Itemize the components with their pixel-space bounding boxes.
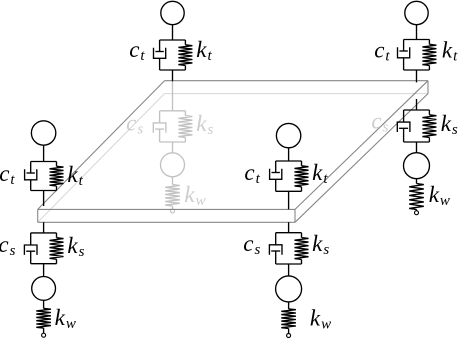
svg-text:kw: kw [310,306,331,333]
wire top bar (front-right suspension pair) [276,232,302,234]
svg-text:ks: ks [441,111,458,138]
wire to wheel mass (front-left) [43,264,45,277]
chassis plate front bottom edge [38,221,295,223]
chassis plate right face (fill) [295,81,428,223]
spring k (front-left tire pair) [50,162,64,191]
sprung mass (rear-right) [405,1,428,24]
wire pair to plate (front-right) [288,191,290,209]
wire pair to plate (rear-right) [416,70,418,82]
wire top bar (hidden rear-left suspension) [160,110,186,112]
ground node (front-right) [287,334,291,338]
svg-text:ct: ct [374,38,390,65]
spring k (front-right tire pair) [295,161,309,191]
wheel mass (front-right) [276,276,302,302]
hidden wire to ground (rear-left) [172,206,174,209]
svg-text:cs: cs [243,231,260,258]
hidden plate bottom-back edge [165,93,429,95]
wire plate to suspension (rear-right) [416,99,418,110]
damper c (rear-right tire pair) [398,40,410,71]
hidden wire to wheel mass (rear-left) [172,142,174,153]
wire bottom bar (front-right suspension pair) [276,263,302,265]
damper c (hidden rear-left suspension) [153,111,166,142]
wire top bar (rear-left tire pair) [160,39,186,41]
svg-text:ks: ks [67,233,84,260]
chassis plate right end cap [427,81,429,94]
chassis plate left edge [38,81,165,210]
wire plate to pair (front-left) [43,222,45,233]
svg-text:cs: cs [0,232,16,259]
hidden wire to tire spring (rear-left) [172,177,174,185]
damper c (rear-right suspension pair) [397,110,410,142]
wire bottom bar (rear-right suspension pair) [404,141,430,143]
spring k (front-left suspension pair) [50,233,64,264]
svg-text:kt: kt [196,37,212,64]
damper c (rear-left tire pair) [154,40,166,70]
hidden plate bottom-left edge [38,94,165,223]
damper c (front-right tire pair) [270,161,282,191]
wire bottom bar (rear-left tire pair) [160,69,186,71]
hidden wheel mass (rear-left) [161,153,185,177]
wire bottom bar (front-left suspension pair) [31,263,57,265]
wire pair to plate (front-left) [43,191,45,207]
chassis plate front right end cap [294,209,296,222]
wire top bar (rear-right suspension pair) [404,109,430,111]
sprung mass (front-right) [276,123,300,147]
chassis plate top face (fill) [38,81,428,210]
svg-text:ct: ct [129,37,145,64]
chassis plate front face (fill) [38,209,295,222]
svg-text:ks: ks [312,231,329,258]
damper c (front-right suspension pair) [269,233,282,264]
spring k (rear-left tire pair) [178,40,192,70]
wire bottom bar (front-left tire pair) [31,190,57,192]
spring k (rear-right tire pair) [422,40,436,71]
wire top bar (front-left suspension pair) [31,232,57,234]
wire bottom bar (rear-right tire pair) [404,69,430,71]
chassis plate lower right edge [295,94,428,223]
chassis plate front top edge [38,208,295,210]
svg-text:kw: kw [55,305,76,332]
spring k (rear-right suspension pair) [422,110,436,142]
wire to wheel mass (rear-right) [416,142,418,153]
damper c (front-left tire pair) [25,162,37,191]
wire mass to pair (front-right) [288,148,290,161]
damper c (front-left suspension pair) [24,233,37,264]
spring k (front-right suspension pair) [295,233,309,264]
ground node (front-left) [42,333,46,337]
wire to wheel mass (front-right) [288,264,290,276]
wire mass to pair (rear-left) [172,25,174,40]
tire spring k_w (front-left) [36,308,51,328]
hidden tire spring k_w (rear-left) [165,185,180,206]
chassis plate right edge [295,81,428,210]
chassis plate back edge [165,80,429,82]
sprung mass (rear-left) [161,1,184,24]
wire pair to plate (rear-left) [172,70,174,81]
hidden ground node (rear-left) [171,209,175,213]
chassis plate left end cap [37,209,39,222]
wire top bar (rear-right tire pair) [404,39,430,41]
wire mass to pair (rear-right) [416,25,418,40]
wire to ground (front-left) [43,328,45,333]
wire to ground (front-right) [288,329,290,334]
tire spring k_w (front-right) [281,309,296,329]
wire bottom bar (front-right tire pair) [276,190,302,192]
wire top bar (front-left tire pair) [31,161,57,163]
wheel mass (front-left) [32,277,56,301]
wire bottom bar (hidden rear-left suspension) [160,141,186,143]
svg-text:kw: kw [429,182,450,209]
wire plate to pair (front-right) [288,222,290,233]
wheel mass (rear-right) [404,153,430,179]
wire to tire spring (front-left) [43,300,45,308]
ground node (rear-right) [415,211,419,215]
sprung mass (front-left) [31,121,55,145]
tire spring k_w (rear-right) [409,184,424,210]
wire to tire spring (rear-right) [416,179,418,184]
spring k (hidden rear-left suspension) [178,111,192,142]
wire top bar (front-right tire pair) [276,160,302,162]
svg-text:ct: ct [0,161,15,188]
hidden wire plate to suspension (rear-left) [172,81,174,111]
svg-text:kt: kt [442,38,458,65]
wire to tire spring (front-right) [288,302,290,309]
wire to ground (rear-right) [416,210,418,211]
wire mass to pair (front-left) [43,145,45,161]
